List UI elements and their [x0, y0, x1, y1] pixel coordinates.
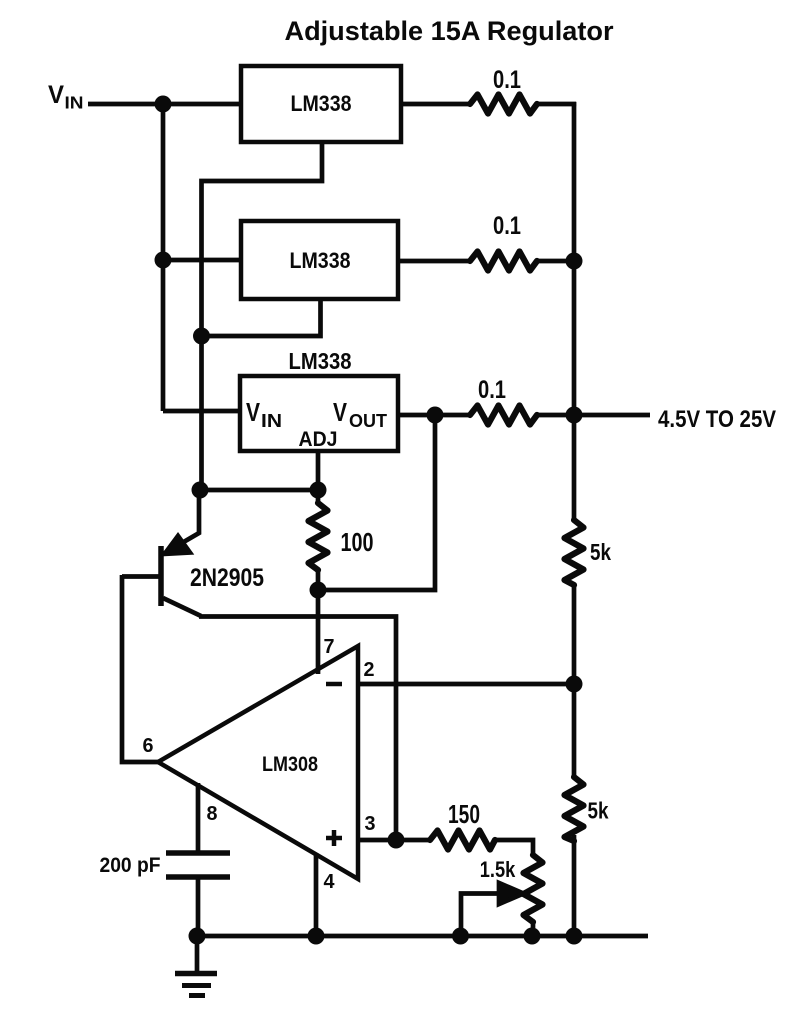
svg-text:200 pF: 200 pF	[100, 854, 161, 877]
svg-text:LM338: LM338	[289, 348, 352, 374]
svg-text:2: 2	[364, 659, 375, 681]
wire U1 output	[401, 102, 470, 107]
junction C1 / ground rail	[189, 928, 206, 945]
svg-text:V: V	[333, 397, 348, 427]
regulator U2 LM338	[241, 221, 398, 299]
junction R2 / output rail	[566, 253, 583, 270]
wire U3 ADJ	[316, 451, 321, 490]
regulator U3 LM338	[240, 376, 398, 451]
junction R4 bottom	[310, 582, 327, 599]
svg-text:LM338: LM338	[290, 248, 351, 273]
svg-text:OUT: OUT	[349, 411, 387, 431]
wire U3 output	[398, 413, 470, 418]
wire rail bottom segment	[572, 835, 577, 936]
wire pot wiper	[461, 894, 502, 937]
svg-text:IN: IN	[65, 93, 84, 113]
svg-text:LM338: LM338	[291, 91, 352, 116]
wire ADJ junction row	[200, 488, 318, 493]
pot wiper arrow	[499, 883, 524, 904]
resistor R3 0.1	[470, 406, 537, 425]
svg-text:3: 3	[365, 813, 376, 835]
svg-text:6: 6	[143, 735, 154, 757]
wire pin2 to divider	[358, 682, 574, 687]
wire pin7	[316, 590, 321, 674]
svg-text:100: 100	[341, 527, 374, 557]
wire U1 ADJ	[202, 140, 323, 338]
svg-text:7: 7	[324, 636, 335, 658]
junction pot bottom / ground rail	[524, 928, 541, 945]
potentiometer R8 1.5k	[524, 855, 543, 922]
svg-text:V: V	[246, 397, 261, 427]
wire U3 input	[163, 409, 240, 414]
wire R2 to output rail	[537, 259, 574, 264]
wire pin4	[314, 853, 319, 936]
svg-text:0.1: 0.1	[493, 212, 521, 240]
wire rail mid segment	[572, 585, 577, 777]
resistor R4 100	[316, 490, 321, 503]
junction ADJ rail / emitter	[192, 482, 209, 499]
wire pin3	[358, 838, 430, 843]
wire output rail top segment	[572, 102, 577, 520]
resistor R5 5k	[565, 520, 584, 585]
junction VIN / U1 input	[155, 96, 172, 113]
wire output lead	[574, 413, 650, 418]
svg-text:0.1: 0.1	[493, 66, 521, 94]
wire VIN rail	[161, 104, 166, 411]
regulator U1 LM338	[241, 66, 401, 142]
svg-text:IN: IN	[261, 411, 282, 431]
svg-text:5k: 5k	[588, 798, 609, 824]
resistor R7 150	[430, 831, 495, 850]
svg-text:V: V	[48, 81, 64, 109]
op-amp U4 LM308	[158, 646, 358, 879]
wire R1 to output rail	[537, 102, 576, 107]
svg-text:Adjustable 15A Regulator: Adjustable 15A Regulator	[285, 16, 614, 46]
wire R3 to output node	[537, 413, 574, 418]
svg-text:4.5V TO 25V: 4.5V TO 25V	[658, 406, 776, 433]
junction divider node	[566, 676, 583, 693]
svg-text:0.1: 0.1	[478, 376, 506, 404]
junction rail / ground rail	[566, 928, 583, 945]
svg-text:ADJ: ADJ	[299, 428, 338, 451]
wire ADJ rail	[199, 336, 204, 492]
svg-text:LM308: LM308	[262, 752, 318, 776]
junction output node	[566, 407, 583, 424]
svg-text:1.5k: 1.5k	[480, 857, 516, 882]
transistor Q1 2N2905	[163, 488, 199, 554]
svg-text:8: 8	[207, 803, 218, 825]
svg-text:2N2905: 2N2905	[190, 564, 264, 592]
wire U2 ADJ	[202, 297, 321, 336]
junction pin4 / ground rail	[308, 928, 325, 945]
svg-text:150: 150	[448, 799, 480, 829]
junction ADJ rail / U2 ADJ	[193, 328, 210, 345]
svg-text:5k: 5k	[590, 539, 611, 565]
resistor R1 0.1	[470, 95, 537, 114]
junction ADJ / R4 top	[310, 482, 327, 499]
resistor R2 0.1	[470, 252, 537, 271]
wire Q1 base to pin 6	[122, 575, 158, 762]
wire U2 input	[163, 258, 241, 263]
ground	[195, 936, 200, 973]
wire R7 to potentiometer	[495, 840, 533, 855]
resistor R6 5k	[565, 777, 584, 841]
junction VIN rail / U2 input	[155, 252, 172, 269]
junction collector / pin3 / R7	[388, 832, 405, 849]
junction wiper / ground rail	[452, 928, 469, 945]
wire feedback VOUT to R4 bottom	[318, 413, 435, 590]
wire VIN input	[88, 102, 241, 107]
wire pin8	[196, 783, 201, 852]
svg-text:4: 4	[324, 871, 336, 893]
wire U2 output	[398, 259, 470, 264]
wire Q1 collector to pin 3	[199, 617, 396, 841]
wire ground rail	[197, 934, 648, 939]
capacitor C1 200 pF	[166, 850, 230, 856]
junction VOUT / feedback	[427, 407, 444, 424]
